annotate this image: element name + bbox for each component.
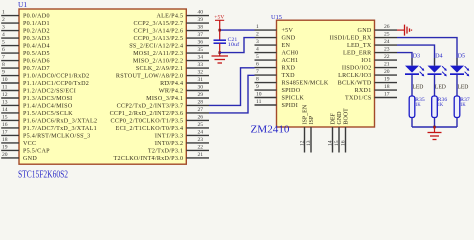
svg-text:14: 14 [2, 107, 8, 113]
U1 pin 38 (CCP1_3/A14/P2.6) wire [134, 25, 209, 35]
U15 pin 17 (TXD1/CS) wire [345, 92, 397, 102]
U15 pin 9 (SPIDO) wire [255, 84, 301, 94]
svg-text:8: 8 [256, 77, 259, 83]
svg-text:WR/P4.2: WR/P4.2 [159, 89, 184, 95]
svg-text:P1.2/ADC2/SS/ECI: P1.2/ADC2/SS/ECI [23, 89, 76, 95]
U1 pin 40 (ALE/P4.5) wire [157, 10, 209, 20]
svg-text:LED_ERR: LED_ERR [343, 51, 372, 57]
svg-text:CCP0_2/T0CLKO/T1/P3.5: CCP0_2/T0CLKO/T1/P3.5 [111, 119, 184, 125]
svg-text:P0.4/AD4: P0.4/AD4 [23, 44, 50, 50]
wire cap to ground [219, 43, 221, 56]
svg-text:13: 13 [306, 140, 312, 146]
U1 pin 31 (RD/P4.4) wire [160, 77, 209, 87]
svg-text:5: 5 [256, 54, 259, 60]
svg-text:GND: GND [23, 156, 37, 162]
svg-text:12: 12 [2, 92, 8, 98]
svg-text:10: 10 [256, 92, 262, 98]
svg-text:P1.1/ADC1/CCP0/TxD2: P1.1/ADC1/CCP0/TxD2 [23, 81, 89, 87]
U1 pin 37 (CCP0_3/A13/P2.5) wire [134, 32, 209, 42]
svg-text:U1: U1 [18, 0, 27, 9]
svg-text:STC15F2K60S2: STC15F2K60S2 [18, 169, 68, 179]
svg-text:INT1/P3.3: INT1/P3.3 [155, 134, 183, 140]
wire resistor to bus [411, 118, 413, 128]
U1 pin 16 (P1.7/ADC7/TxD_3/XTAL1) wire [1, 122, 97, 132]
U15 pin 5 (ACH1) wire [255, 54, 299, 64]
svg-text:13: 13 [2, 99, 8, 105]
U1 pin 22 (T2/TxD/P3.1) wire [148, 144, 209, 154]
svg-text:4: 4 [256, 47, 259, 53]
svg-text:ACH1: ACH1 [282, 58, 299, 64]
U15 pin 10 (SPICLK) wire [255, 92, 305, 102]
svg-text:1K: 1K [460, 102, 466, 108]
U15 pin 3 (EN) wire [255, 39, 291, 49]
U15 pin 23 (LED_ERR) wire [343, 47, 397, 57]
svg-text:GND: GND [337, 111, 343, 125]
U1 pin 39 (CCP2_3/A15/P2.7) wire [134, 17, 209, 27]
svg-text:P0.3/AD3: P0.3/AD3 [23, 36, 50, 42]
svg-text:2: 2 [2, 17, 5, 23]
svg-text:P0.5/AD5: P0.5/AD5 [23, 51, 50, 57]
svg-text:U15: U15 [271, 14, 282, 21]
U1 pin 9 (P1.0/ADC0/CCP1/RxD2) wire [1, 70, 89, 80]
U15 pin 26 (GND) wire [358, 24, 397, 34]
U15 pin 7 (TXD) wire [255, 69, 296, 79]
svg-text:17: 17 [384, 92, 390, 98]
svg-text:18: 18 [384, 84, 390, 90]
svg-text:1K: 1K [438, 102, 444, 108]
svg-text:19: 19 [384, 77, 390, 83]
power +5V symbol [214, 14, 224, 39]
svg-text:RS485EN/MCLK: RS485EN/MCLK [282, 81, 329, 87]
svg-text:IISDI/LED_RX: IISDI/LED_RX [330, 36, 372, 42]
junction gnd bus [433, 126, 436, 129]
label STC15F2K60S2 [18, 169, 68, 180]
svg-text:4: 4 [2, 32, 5, 38]
svg-text:D4: D4 [435, 54, 443, 60]
wire +5V to U15 pin1 [220, 29, 255, 31]
svg-text:26: 26 [198, 114, 204, 120]
wire U1 pin28 TxD_2 to U15 RXD [209, 68, 255, 106]
U1 pin 35 (MOSI_2/A11/P2.3) wire [133, 47, 209, 57]
junction +5V [218, 29, 221, 32]
U1 pin 10 (P1.1/ADC1/CCP0/TxD2) wire [1, 77, 89, 87]
svg-text:6: 6 [2, 47, 5, 53]
svg-text:21: 21 [198, 152, 204, 158]
U15 pin 20 (LRCLK/IO3) wire [338, 69, 397, 79]
svg-text:ACH0: ACH0 [282, 51, 299, 57]
svg-text:LRCLK/IO3: LRCLK/IO3 [338, 73, 371, 79]
svg-text:22: 22 [384, 54, 390, 60]
ground symbol under C21 [212, 56, 229, 63]
svg-text:RXD: RXD [282, 66, 296, 72]
svg-text:P1.3/ADC3/MOSI: P1.3/ADC3/MOSI [23, 96, 72, 102]
U15 pin 8 (RS485EN/MCLK) wire [255, 77, 329, 87]
svg-text:36: 36 [198, 40, 204, 46]
svg-text:+5V: +5V [214, 14, 224, 20]
U1 pin 17 (P5.4/RST/MCLKO/SS_3) wire [1, 129, 90, 139]
svg-text:CCP1_2/RxD_2/INT2/P3.6: CCP1_2/RxD_2/INT2/P3.6 [110, 111, 184, 117]
svg-text:22: 22 [198, 144, 204, 150]
svg-text:P0.6/AD6: P0.6/AD6 [23, 59, 50, 65]
U15 pin 14 (DEF) bottom wire [327, 113, 336, 153]
label U1 [18, 0, 27, 9]
U1 pin 12 (P1.3/ADC3/MOSI) wire [1, 92, 72, 102]
U15 pin 15 (GND) bottom wire [334, 111, 343, 153]
svg-text:3: 3 [256, 39, 259, 45]
IC U1 body (MCU STC15F2K60S2) [19, 9, 186, 164]
svg-text:LED: LED [412, 83, 423, 90]
svg-text:RD/P4.4: RD/P4.4 [160, 81, 183, 87]
svg-text:LED: LED [435, 83, 446, 90]
svg-text:TXD1/CS: TXD1/CS [345, 96, 372, 102]
svg-text:3: 3 [2, 25, 5, 31]
wire resistor to bus [456, 118, 458, 128]
svg-text:GND: GND [282, 36, 296, 42]
svg-text:CCP1_3/A14/P2.6: CCP1_3/A14/P2.6 [134, 29, 184, 35]
U15 pin 6 (RXD) wire [255, 62, 296, 72]
svg-text:14: 14 [327, 140, 333, 146]
svg-text:9: 9 [2, 70, 5, 76]
svg-text:20: 20 [2, 152, 8, 158]
U15 pin 1 (+5V) wire [255, 24, 294, 34]
U15 pin 11 (SPIDI) wire [255, 99, 299, 109]
label U15 [271, 14, 282, 21]
U15 pin 19 (BCLK/WTD) wire [338, 77, 397, 87]
U1 pin 19 (P5.5/CAP) wire [1, 144, 50, 154]
ground symbol at U15 pin26 [397, 25, 412, 36]
wire U15 LED pin to D4 [397, 45, 435, 66]
svg-text:P0.7/AD7: P0.7/AD7 [23, 66, 50, 72]
svg-text:2: 2 [256, 32, 259, 38]
svg-text:LED: LED [457, 83, 468, 90]
svg-text:1K: 1K [415, 102, 421, 108]
svg-text:SPIDO: SPIDO [282, 88, 301, 94]
svg-text:P1.4/ADC4/MISO: P1.4/ADC4/MISO [23, 104, 73, 110]
svg-text:6: 6 [256, 62, 259, 68]
U1 pin 27 (CCP1_2/RxD_2/INT2/P3.6) wire [110, 107, 209, 117]
wire gnd bus under resistors [412, 126, 457, 128]
ground symbol under LEDs [428, 127, 442, 140]
U1 pin 30 (WR/P4.2) wire [159, 85, 209, 95]
svg-text:1: 1 [256, 24, 259, 30]
wire resistor to bus [434, 118, 436, 128]
svg-text:SCLK_2/A9/P2.1: SCLK_2/A9/P2.1 [136, 66, 183, 72]
svg-text:28: 28 [198, 99, 204, 105]
wire U1 pin27 RxD_2 to U15 TXD [209, 75, 255, 113]
U1 pin 13 (P1.4/ADC4/MISO) wire [1, 99, 73, 109]
svg-text:7: 7 [256, 69, 259, 75]
svg-text:P5.5/CAP: P5.5/CAP [23, 149, 50, 155]
svg-text:8: 8 [2, 62, 5, 68]
svg-text:CCP0_3/A13/P2.5: CCP0_3/A13/P2.5 [134, 36, 184, 42]
U15 pin 18 (RXD1) wire [355, 84, 397, 94]
LED D5 [450, 54, 469, 91]
U1 pin 18 (VCC) wire [1, 137, 36, 147]
svg-text:P0.0/AD0: P0.0/AD0 [23, 14, 50, 20]
LED D3 [405, 54, 424, 91]
svg-text:23: 23 [198, 137, 204, 143]
svg-text:INT0/P3.2: INT0/P3.2 [155, 141, 183, 147]
svg-text:32: 32 [198, 70, 204, 76]
svg-text:D5: D5 [458, 54, 466, 60]
svg-text:LED_TX: LED_TX [347, 43, 372, 49]
U1 pin 2 (P0.1/AD1) wire [1, 17, 50, 27]
U1 pin 20 (GND) wire [1, 152, 37, 162]
label ZM2410 [251, 125, 290, 136]
U1 pin 32 (RSTOUT_LOW/A8/P2.0) wire [116, 70, 209, 80]
U1 pin 5 (P0.4/AD4) wire [1, 40, 50, 50]
svg-text:26: 26 [384, 24, 390, 30]
svg-text:24: 24 [384, 39, 390, 45]
LED D4 [428, 54, 447, 91]
svg-text:12: 12 [299, 140, 305, 146]
svg-text:25: 25 [198, 122, 204, 128]
svg-text:16: 16 [2, 122, 8, 128]
svg-text:39: 39 [198, 17, 204, 23]
svg-text:RSTOUT_LOW/A8/P2.0: RSTOUT_LOW/A8/P2.0 [116, 74, 183, 80]
svg-text:11: 11 [256, 99, 262, 105]
svg-text:SS_2/ECI/A12/P2.4: SS_2/ECI/A12/P2.4 [129, 44, 183, 50]
svg-text:34: 34 [198, 55, 204, 61]
svg-text:P1.5/ADC5/SCLK: P1.5/ADC5/SCLK [23, 111, 73, 117]
svg-text:16: 16 [340, 140, 346, 146]
wire LED cathode to resistor [456, 58, 458, 96]
U1 pin 4 (P0.3/AD3) wire [1, 32, 50, 42]
U1 pin 29 (MISO_3/P4.1) wire [146, 92, 209, 102]
svg-text:TXD: TXD [282, 73, 296, 79]
U15 pin 16 (BOOT) bottom wire [340, 108, 349, 153]
junction gnd wire [218, 51, 221, 54]
svg-text:40: 40 [198, 10, 204, 16]
svg-text:T2/TxD/P3.1: T2/TxD/P3.1 [148, 149, 183, 155]
U1 pin 25 (ECI_2/T1CLKO/T0/P3.4) wire [116, 122, 209, 132]
svg-text:29: 29 [198, 92, 204, 98]
svg-text:7: 7 [2, 55, 5, 61]
svg-text:MOSI_2/A11/P2.3: MOSI_2/A11/P2.3 [133, 51, 183, 57]
svg-text:1: 1 [2, 10, 5, 16]
svg-text:5: 5 [2, 40, 5, 46]
svg-text:DEF: DEF [331, 113, 337, 125]
U1 pin 7 (P0.6/AD6) wire [1, 55, 50, 65]
svg-text:IO1: IO1 [361, 58, 371, 64]
svg-text:MISO_2/A10/P2.2: MISO_2/A10/P2.2 [133, 59, 183, 65]
U1 pin 14 (P1.5/ADC5/SCLK) wire [1, 107, 73, 117]
wire U15 pin2 GND [220, 38, 255, 53]
svg-text:24: 24 [198, 129, 204, 135]
U15 pin 22 (IO1) wire [361, 54, 397, 64]
U1 pin 8 (P0.7/AD7) wire [1, 62, 50, 72]
wire LED cathode to resistor [434, 58, 436, 96]
svg-text:CCP2/TxD_2/INT3/P3.7: CCP2/TxD_2/INT3/P3.7 [117, 104, 184, 110]
svg-text:15: 15 [334, 140, 340, 146]
svg-text:17: 17 [2, 129, 8, 135]
resistor R35 1K [409, 96, 425, 118]
svg-text:EN: EN [282, 43, 291, 49]
svg-text:23: 23 [384, 47, 390, 53]
svg-text:P1.7/ADC7/TxD_3/XTAL1: P1.7/ADC7/TxD_3/XTAL1 [23, 126, 97, 132]
wire LED cathode to resistor [411, 58, 413, 96]
svg-text:SPIDI: SPIDI [282, 103, 299, 109]
U1 pin 28 (CCP2/TxD_2/INT3/P3.7) wire [117, 99, 209, 109]
U15 pin 4 (ACH0) wire [255, 47, 299, 57]
svg-text:9: 9 [256, 84, 259, 90]
svg-text:D3: D3 [413, 54, 421, 60]
U1 pin 23 (INT0/P3.2) wire [155, 137, 209, 147]
svg-text:27: 27 [198, 107, 204, 113]
U15 pin 21 (IISDO/IO2) wire [342, 62, 397, 72]
svg-text:30: 30 [198, 85, 204, 91]
svg-text:P1.0/ADC0/CCP1/RxD2: P1.0/ADC0/CCP1/RxD2 [23, 74, 89, 80]
U1 pin 24 (INT1/P3.3) wire [155, 129, 209, 139]
svg-text:10uf: 10uf [228, 41, 240, 48]
U1 pin 11 (P1.2/ADC2/SS/ECI) wire [1, 85, 76, 95]
U15 pin 24 (LED_TX) wire [347, 39, 397, 49]
svg-text:P1.6/ADC6/RxD_3/XTAL2: P1.6/ADC6/RxD_3/XTAL2 [23, 119, 97, 125]
svg-text:10: 10 [2, 77, 8, 83]
U15 pin 12 (ISP_EN) bottom wire [299, 104, 308, 152]
svg-text:37: 37 [198, 32, 204, 38]
IC body U15 (ZM2410) [277, 20, 375, 127]
svg-text:11: 11 [2, 85, 8, 91]
svg-text:33: 33 [198, 62, 204, 68]
U1 pin 3 (P0.2/AD2) wire [1, 25, 50, 35]
svg-text:20: 20 [384, 69, 390, 75]
svg-text:BOOT: BOOT [344, 108, 350, 125]
U15 pin 13 (ISP) bottom wire [306, 115, 315, 152]
U1 pin 36 (SS_2/ECI/A12/P2.4) wire [129, 40, 209, 50]
U15 pin 25 (IISDI/LED_RX) wire [330, 32, 397, 42]
svg-text:18: 18 [2, 137, 8, 143]
svg-text:MISO_3/P4.1: MISO_3/P4.1 [146, 96, 183, 102]
U15 pin 2 (GND) wire [255, 32, 296, 42]
wire U15 LED pin to D5 [397, 38, 457, 66]
svg-text:+5V: +5V [282, 28, 294, 34]
U1 pin 15 (P1.6/ADC6/RxD_3/XTAL2) wire [1, 114, 97, 124]
U1 pin 21 (T2CLKO/INT4/RxD/P3.0) wire [114, 152, 209, 162]
svg-text:ALE/P4.5: ALE/P4.5 [157, 14, 184, 20]
svg-text:P5.4/RST/MCLKO/SS_3: P5.4/RST/MCLKO/SS_3 [23, 134, 91, 140]
svg-text:VCC: VCC [23, 141, 36, 147]
resistor R37 1K [454, 96, 470, 118]
svg-text:GND: GND [358, 28, 372, 34]
U1 pin 6 (P0.5/AD5) wire [1, 47, 50, 57]
svg-text:ISP: ISP [309, 115, 315, 124]
svg-text:25: 25 [384, 32, 390, 38]
svg-text:T2CLKO/INT4/RxD/P3.0: T2CLKO/INT4/RxD/P3.0 [114, 156, 184, 162]
svg-text:38: 38 [198, 25, 204, 31]
svg-text:CCP2_3/A15/P2.7: CCP2_3/A15/P2.7 [134, 21, 184, 27]
svg-text:ZM2410: ZM2410 [251, 125, 290, 136]
svg-text:P0.2/AD2: P0.2/AD2 [23, 29, 50, 35]
wire U15 LED pin to D3 [397, 53, 412, 66]
svg-text:P0.1/AD1: P0.1/AD1 [23, 21, 50, 27]
svg-text:ECI_2/T1CLKO/T0/P3.4: ECI_2/T1CLKO/T0/P3.4 [116, 126, 184, 132]
svg-text:SPICLK: SPICLK [282, 96, 305, 102]
svg-text:RXD1: RXD1 [355, 88, 372, 94]
U1 pin 26 (CCP0_2/T0CLKO/T1/P3.5) wire [111, 114, 209, 124]
svg-text:BCLK/WTD: BCLK/WTD [338, 81, 372, 87]
U1 pin 33 (SCLK_2/A9/P2.1) wire [136, 62, 209, 72]
svg-text:19: 19 [2, 144, 8, 150]
svg-text:35: 35 [198, 47, 204, 53]
U1 pin 1 (P0.0/AD0) wire [1, 10, 50, 20]
svg-text:31: 31 [198, 77, 204, 83]
resistor R36 1K [432, 96, 448, 118]
svg-text:IISDO/IO2: IISDO/IO2 [342, 66, 372, 72]
capacitor C21 [214, 37, 240, 48]
svg-text:21: 21 [384, 62, 390, 68]
svg-text:ISP_EN: ISP_EN [303, 104, 309, 124]
svg-text:15: 15 [2, 114, 8, 120]
U1 pin 34 (MISO_2/A10/P2.2) wire [133, 55, 209, 65]
